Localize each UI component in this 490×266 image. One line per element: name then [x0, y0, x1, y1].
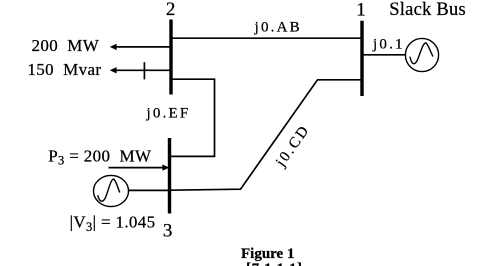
svg-text:P3 = 200 MW: P3 = 200 MW: [48, 146, 152, 167]
load arrow 200 MW at bus 2: [115, 46, 171, 48]
bus 3: [168, 138, 171, 214]
svg-text:150 Mvar: 150 Mvar: [27, 60, 101, 79]
svg-text:[7.1.1.1]: [7.1.1.1]: [246, 261, 303, 266]
bus 1: [360, 21, 363, 96]
wire bus1 to generator G1: [362, 54, 406, 56]
bus 2: [169, 20, 172, 95]
generator G1 (slack): [405, 38, 438, 71]
svg-text:Figure 1: Figure 1: [241, 246, 294, 262]
svg-text:|V3| = 1.045: |V3| = 1.045: [70, 212, 156, 233]
svg-text:3: 3: [163, 220, 173, 241]
svg-text:2: 2: [166, 0, 176, 20]
wire line 2-1: [171, 37, 362, 39]
injection arrow P3 into bus 3: [109, 167, 165, 169]
wire line 3-1 (j0.CD): [170, 80, 362, 190]
load arrow 150 Mvar at bus 2: [115, 69, 171, 71]
generator G3: [94, 175, 129, 206]
svg-text:1: 1: [356, 0, 366, 20]
svg-text:j0.1: j0.1: [372, 37, 405, 53]
capacitor tick on 150 Mvar line: [143, 62, 145, 79]
svg-text:200 MW: 200 MW: [32, 36, 100, 55]
wire line 2-3 (j0.EF): [170, 79, 215, 156]
svg-text:Slack Bus: Slack Bus: [389, 0, 466, 20]
svg-text:j0.EF: j0.EF: [146, 106, 191, 122]
svg-text:j0.AB: j0.AB: [254, 20, 302, 36]
wire generator G3 to bus 3: [128, 189, 169, 191]
